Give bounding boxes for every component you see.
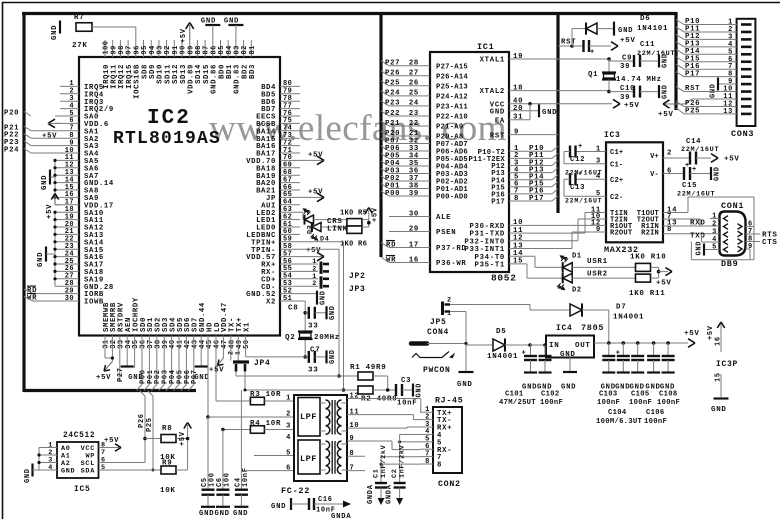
LED D4 LINK xyxy=(309,227,311,234)
svg-text:100nF: 100nF xyxy=(540,399,563,407)
svg-text:FC-22: FC-22 xyxy=(281,486,310,496)
svg-text:29: 29 xyxy=(409,225,419,233)
svg-text:1N4001: 1N4001 xyxy=(613,314,644,322)
svg-text:28: 28 xyxy=(409,60,419,68)
microcontroller IC1 8052 body xyxy=(430,52,509,272)
svg-text:16: 16 xyxy=(409,256,419,264)
DB9 loop wires T1OUT/T2OUT to pins 6/9 xyxy=(663,212,688,214)
svg-text:C105: C105 xyxy=(631,391,649,399)
svg-text:GND: GND xyxy=(61,467,75,475)
+5V at IC2 pin 47 VDD.47 xyxy=(222,336,224,359)
capacitor C1 1nF/2kV on CON2 pins 7/8 xyxy=(381,456,420,458)
svg-text:R3 10R: R3 10R xyxy=(250,391,281,399)
svg-text:RXD: RXD xyxy=(690,220,706,228)
ground at IC2 pin 44 GND.44 xyxy=(200,336,202,367)
R1 output joins R2 node xyxy=(373,375,388,377)
svg-text:LPF: LPF xyxy=(300,412,317,422)
svg-text:100M/6.3UT: 100M/6.3UT xyxy=(596,418,643,426)
svg-text:JP2: JP2 xyxy=(349,272,366,281)
svg-text:P37-RD: P37-RD xyxy=(436,245,466,253)
svg-text:R7: R7 xyxy=(74,14,84,22)
svg-text:+5V: +5V xyxy=(306,247,321,255)
CON3 pins 1-8 wires P10-P17 from bus xyxy=(676,20,684,25)
CON3 pin 13 P25 xyxy=(676,108,684,114)
svg-text:6: 6 xyxy=(667,167,672,175)
svg-text:C15: C15 xyxy=(682,182,697,190)
svg-text:P22: P22 xyxy=(385,110,400,118)
CON3 pin 11 +5V xyxy=(692,98,737,100)
svg-text:GND: GND xyxy=(199,510,214,518)
DB9 pin 5 ground xyxy=(703,244,705,256)
capacitor C2 1nF/2kV on CON2 pins 4/5 xyxy=(400,434,420,436)
svg-text:GND: GND xyxy=(490,109,505,117)
svg-text:27K: 27K xyxy=(72,42,88,50)
junction of R5/R6 to +5V xyxy=(362,219,369,221)
+5V arrow at IC2 pin 57 VDD.57 xyxy=(300,256,322,258)
svg-text:GND: GND xyxy=(696,241,704,256)
svg-text:+5V: +5V xyxy=(658,111,674,119)
svg-text:19: 19 xyxy=(513,53,523,61)
svg-text:1nF/2kV: 1nF/2kV xyxy=(380,444,388,478)
svg-text:+5V: +5V xyxy=(656,280,672,288)
svg-text:C1+: C1+ xyxy=(610,149,623,157)
svg-text:GND: GND xyxy=(711,406,727,414)
svg-text:2: 2 xyxy=(667,149,672,157)
svg-text:GND: GND xyxy=(41,175,49,190)
svg-text:8: 8 xyxy=(667,226,672,234)
svg-text:39: 39 xyxy=(620,94,630,102)
svg-text:X1: X1 xyxy=(243,322,251,332)
svg-text:GND: GND xyxy=(271,503,286,511)
svg-text:C11: C11 xyxy=(640,41,655,49)
svg-text:OUT: OUT xyxy=(575,342,591,350)
+5V arrow above IC2 pin 89 xyxy=(189,25,191,40)
svg-text:100nF: 100nF xyxy=(657,399,680,407)
svg-text:25: 25 xyxy=(409,90,419,98)
crystal Q2 20MHz xyxy=(298,330,313,332)
capacitor C13 22M/16UT xyxy=(576,178,607,180)
svg-text:SDA: SDA xyxy=(81,467,96,475)
svg-text:GNDA: GNDA xyxy=(386,484,394,504)
svg-text:8052: 8052 xyxy=(491,273,517,284)
svg-text:GND: GND xyxy=(233,510,248,518)
svg-text:10nF: 10nF xyxy=(397,400,417,408)
TX wire row to R1 xyxy=(235,372,237,377)
ground at R7 xyxy=(59,21,61,34)
bus line left vertical xyxy=(22,12,25,392)
svg-text:GND: GND xyxy=(457,381,473,389)
svg-text:4: 4 xyxy=(286,434,291,442)
diode D5 1N4001 xyxy=(466,344,493,346)
svg-text:30: 30 xyxy=(65,295,74,303)
svg-text:+5V: +5V xyxy=(179,431,187,446)
crystal Q1 14.74 MHz xyxy=(602,71,616,73)
svg-text:7805: 7805 xyxy=(581,323,604,333)
svg-text:JP4: JP4 xyxy=(254,359,271,368)
svg-text:GND: GND xyxy=(194,374,209,382)
svg-text:7: 7 xyxy=(350,464,355,472)
DB9 pin 4 stub xyxy=(702,241,720,243)
svg-text:P21-A9: P21-A9 xyxy=(436,124,463,132)
net USR1 wire to R10 xyxy=(572,266,635,268)
resistor R4 10R xyxy=(223,429,251,431)
svg-text:C101: C101 xyxy=(505,391,524,399)
crystal network: X2 wire from pin 51 xyxy=(300,300,305,302)
bus line right of IC1 vertical xyxy=(556,12,559,213)
svg-text:P25-A13: P25-A13 xyxy=(436,83,468,91)
svg-text:C9: C9 xyxy=(622,55,632,63)
svg-text:39: 39 xyxy=(409,190,419,198)
svg-text:RD: RD xyxy=(386,241,396,249)
svg-text:13: 13 xyxy=(723,108,733,116)
svg-text:P24: P24 xyxy=(4,147,19,155)
svg-text:14.74 MHz: 14.74 MHz xyxy=(616,76,662,84)
CON3 pin 12 P26 xyxy=(676,101,684,106)
IC1 port0 pins P07-P00 from bus xyxy=(381,139,389,144)
svg-text:P23-A11: P23-A11 xyxy=(436,104,468,112)
IC5 ground ties pins 1-4 xyxy=(38,448,40,471)
svg-text:11: 11 xyxy=(350,408,360,416)
svg-text:1: 1 xyxy=(286,394,291,402)
svg-text:39: 39 xyxy=(620,63,630,71)
svg-text:IC3: IC3 xyxy=(604,131,621,140)
svg-text:27: 27 xyxy=(409,70,419,78)
svg-text:C102: C102 xyxy=(541,391,559,399)
+5V node for R10/R11 xyxy=(651,266,659,268)
svg-text:1N4101: 1N4101 xyxy=(637,25,668,33)
svg-text:3: 3 xyxy=(596,158,601,166)
svg-text:8: 8 xyxy=(437,462,442,470)
net USR2 wire to R11 xyxy=(572,277,635,279)
capacitor C102 100nF xyxy=(543,343,547,347)
svg-text:GND: GND xyxy=(662,84,670,99)
svg-text:2: 2 xyxy=(286,411,291,419)
net RST from bus to reset circuit xyxy=(558,45,572,47)
svg-text:P24-A12: P24-A12 xyxy=(436,93,468,101)
svg-text:C2-: C2- xyxy=(610,194,623,202)
svg-text:IC1: IC1 xyxy=(477,42,494,52)
resistor R9 10K pull-up xyxy=(153,469,161,471)
ground symbol at IC2 pins 12-13 xyxy=(49,170,51,185)
svg-text:D7: D7 xyxy=(616,304,626,312)
net LINK wire to R6 xyxy=(321,226,347,228)
svg-text:P36-WR: P36-WR xyxy=(436,260,466,268)
svg-text:+: + xyxy=(692,166,697,174)
DB9 connector CON1 body xyxy=(720,212,746,256)
svg-text:GND: GND xyxy=(329,305,337,320)
svg-text:100: 100 xyxy=(223,472,231,487)
svg-text:CON4: CON4 xyxy=(427,328,449,337)
+5V arrow at IC2 pin 17 xyxy=(54,196,56,205)
ground tie bus for pins 11-16 xyxy=(54,160,56,197)
capacitor C101 47M/25UT xyxy=(530,345,532,356)
ethernet controller IC2 RTL8019AS body xyxy=(79,57,280,336)
svg-text:WR: WR xyxy=(386,256,396,264)
svg-text:GND: GND xyxy=(24,468,32,483)
svg-text:10: 10 xyxy=(350,422,360,430)
svg-text:V-: V- xyxy=(650,171,659,179)
IC2 pin 35 stub xyxy=(134,336,136,369)
svg-text:C108: C108 xyxy=(659,391,677,399)
svg-text:JP5: JP5 xyxy=(430,318,447,327)
svg-text:+5V: +5V xyxy=(42,133,57,141)
MAX232 power pins IC3P xyxy=(717,322,724,328)
svg-text:23: 23 xyxy=(409,110,419,118)
svg-text:20: 20 xyxy=(513,105,523,113)
svg-text:1K0 R5: 1K0 R5 xyxy=(340,210,367,218)
svg-text:33: 33 xyxy=(308,323,318,331)
svg-text:100nF: 100nF xyxy=(597,399,620,407)
svg-text:GND: GND xyxy=(329,349,337,364)
bus line middle vertical (left of IC1) xyxy=(379,12,382,257)
+5V arrow at IC2 pin 65 JP xyxy=(300,196,322,198)
svg-text:+5V: +5V xyxy=(620,37,636,45)
svg-text:81: 81 xyxy=(249,45,257,54)
svg-text:1K0 R11: 1K0 R11 xyxy=(629,290,665,298)
wire P34 to LED D1 xyxy=(509,255,535,257)
svg-text:GND: GND xyxy=(714,166,722,181)
svg-text:+: + xyxy=(590,49,595,57)
svg-text:IC4: IC4 xyxy=(556,324,573,333)
svg-text:+5V: +5V xyxy=(46,204,54,219)
IC4 ground xyxy=(569,358,571,372)
data bus P00-P07 from IC2 pins 36-43 to bus xyxy=(141,336,143,385)
resistor R6 1K0 xyxy=(347,226,362,233)
svg-text:CON2: CON2 xyxy=(438,480,461,489)
svg-text:2: 2 xyxy=(312,280,317,288)
ground at IC2 pin 34 AEN xyxy=(126,336,128,367)
net P27 at IC2 pin 33 RSTDRV xyxy=(119,336,121,383)
wire IC2 pin 45 down to ethernet filter xyxy=(207,336,209,490)
svg-text:GNDA: GNDA xyxy=(367,484,375,504)
svg-text:50: 50 xyxy=(243,340,251,349)
IC1 PSEN pin 29 xyxy=(389,231,430,233)
ground symbol at IC2 pins 23-24 xyxy=(45,247,47,262)
capacitor C9 39pF xyxy=(607,57,611,61)
svg-text:8: 8 xyxy=(350,450,355,458)
svg-text:P25: P25 xyxy=(385,80,400,88)
DB9 right pin contacts 6-9 xyxy=(738,224,743,230)
net CTS at DB9 pin 8 xyxy=(746,241,761,243)
output filter capacitors C103 C104 C105 C108 C106 xyxy=(607,341,611,345)
svg-text:+5V: +5V xyxy=(624,102,640,110)
svg-text:C13: C13 xyxy=(570,184,585,192)
svg-text:+5V: +5V xyxy=(308,151,323,159)
svg-text:6: 6 xyxy=(286,464,291,472)
svg-text:16: 16 xyxy=(715,336,723,346)
inner connection stubs of transformer xyxy=(320,402,326,404)
svg-text:100nF: 100nF xyxy=(629,399,652,407)
capacitor C6 100 xyxy=(222,430,224,490)
svg-text:5: 5 xyxy=(101,464,106,472)
svg-text:LPF: LPF xyxy=(300,454,317,464)
jumper JP2 on RX+/RX- pins 56/55 xyxy=(320,262,323,274)
resistor R7 27K xyxy=(76,23,92,32)
svg-text:+5V: +5V xyxy=(96,374,111,382)
wire JP5 pin2 to diode node xyxy=(450,304,530,306)
svg-text:C104: C104 xyxy=(608,409,627,417)
resistor R8 10K pull-up xyxy=(145,438,161,440)
svg-text:LINK: LINK xyxy=(327,226,348,234)
svg-text:17: 17 xyxy=(409,241,419,249)
capacitor C10 39pF xyxy=(607,90,611,94)
IC1 P37-RD pin 17 from bus xyxy=(381,243,389,248)
svg-text:1nF/2kV: 1nF/2kV xyxy=(398,444,406,478)
serial cross wires MAX232 to 8052 xyxy=(585,212,606,214)
diode D6 1N4101 xyxy=(571,29,573,46)
IC1 port1 pins P10-P17 to bus xyxy=(509,150,552,152)
svg-text:Q1: Q1 xyxy=(588,71,598,79)
svg-text:IC3P: IC3P xyxy=(716,360,738,369)
svg-text:R1 49R9: R1 49R9 xyxy=(350,364,386,372)
svg-text:8: 8 xyxy=(425,458,430,466)
svg-text:+5V: +5V xyxy=(684,330,700,338)
svg-text:RST: RST xyxy=(561,39,576,47)
svg-text:TXD: TXD xyxy=(690,232,706,240)
svg-text:EA: EA xyxy=(495,118,505,126)
eeprom IC5 24C512 body xyxy=(57,442,99,478)
svg-text:R2IN: R2IN xyxy=(641,230,659,238)
capacitor C11 22M/16UT electrolytic xyxy=(572,45,584,47)
svg-text:24: 24 xyxy=(409,100,419,108)
LED D3 CRS xyxy=(302,212,304,219)
resistor R2 49R9 xyxy=(358,386,373,394)
wire R1IN to DB9 pin2 RXD xyxy=(663,225,720,227)
svg-text:RST: RST xyxy=(685,85,700,93)
svg-text:5: 5 xyxy=(712,244,717,252)
svg-text:GND: GND xyxy=(37,252,45,267)
svg-text:22M/16UT: 22M/16UT xyxy=(681,146,719,154)
svg-text:P25: P25 xyxy=(685,108,700,116)
svg-text:JP3: JP3 xyxy=(349,285,366,294)
svg-text:C8: C8 xyxy=(288,305,298,313)
svg-text:IC2: IC2 xyxy=(147,107,191,130)
bus line right vertical (to CON3) xyxy=(674,12,677,110)
svg-text:RJ-45: RJ-45 xyxy=(435,397,463,406)
svg-text:PSEN: PSEN xyxy=(436,229,456,237)
IC1 P36-WR pin 16 from bus xyxy=(381,257,389,263)
svg-text:GND: GND xyxy=(542,109,557,117)
svg-text:C106: C106 xyxy=(646,409,664,417)
svg-text:1: 1 xyxy=(596,145,601,153)
svg-text:R4 10R: R4 10R xyxy=(250,420,281,428)
svg-text:5: 5 xyxy=(286,449,291,457)
wire X1 pin 50 to crystal xyxy=(245,336,247,357)
svg-text:GND: GND xyxy=(662,53,670,68)
svg-text:24C512: 24C512 xyxy=(63,432,95,440)
svg-text:18: 18 xyxy=(513,84,523,92)
svg-text:C1-: C1- xyxy=(610,161,623,169)
svg-text:D1: D1 xyxy=(572,253,582,261)
LED D2 xyxy=(563,273,573,283)
svg-text:47M/25UT: 47M/25UT xyxy=(499,399,536,407)
FC-22 pin 7 stub xyxy=(347,470,365,472)
svg-text:R9: R9 xyxy=(162,460,172,468)
+5V node for R8/R9 xyxy=(176,438,188,440)
DB9 pin 1 stub xyxy=(710,218,720,220)
low pass filter block 1 xyxy=(298,398,320,437)
svg-text:DB9: DB9 xyxy=(721,259,738,269)
diode D7 1N4001 bypass xyxy=(530,309,570,311)
wire FC-22 pin 9 to CON2 pin 6 xyxy=(347,440,392,442)
svg-text:R2OUT: R2OUT xyxy=(610,230,633,238)
svg-text:P20: P20 xyxy=(4,110,19,118)
svg-text:C7: C7 xyxy=(310,347,320,355)
+5V arrow into IC2 pin 6 xyxy=(48,119,55,128)
svg-text:+5V: +5V xyxy=(308,188,323,196)
svg-text:R2 49R9: R2 49R9 xyxy=(361,396,397,404)
svg-text:R8: R8 xyxy=(162,425,172,433)
svg-text:C14: C14 xyxy=(686,138,701,146)
svg-text:D6: D6 xyxy=(640,15,650,23)
wire FC-22 pin 11 to CON2 pin 2 xyxy=(347,414,414,416)
TX wire row to R2 xyxy=(244,372,246,391)
svg-text:P17: P17 xyxy=(491,199,505,207)
svg-text:P26: P26 xyxy=(385,70,400,78)
svg-text:GNDA: GNDA xyxy=(331,513,351,519)
capacitor C4 10nF xyxy=(240,390,242,490)
svg-text:C12: C12 xyxy=(570,156,585,164)
resistor R3 10R xyxy=(216,400,250,402)
svg-text:9: 9 xyxy=(350,435,355,443)
svg-text:GND: GND xyxy=(416,383,424,398)
svg-text:P22-A10: P22-A10 xyxy=(436,114,468,122)
wire FC-22 pin 12 to CON2 pin 1 xyxy=(347,398,421,400)
svg-text:IC5: IC5 xyxy=(74,485,91,494)
svg-text:9: 9 xyxy=(514,128,519,136)
svg-text:P21: P21 xyxy=(385,120,400,128)
IC5 SCL pin 6 wire to P26 xyxy=(99,462,146,464)
svg-text:2: 2 xyxy=(712,221,717,229)
DB9 left pin contacts 1-5 xyxy=(724,216,729,222)
RJ-45 connector CON2 body xyxy=(433,407,462,473)
svg-text:P26-A14: P26-A14 xyxy=(436,73,468,81)
svg-text:+: + xyxy=(616,350,621,358)
resistor R11 1K0 xyxy=(636,274,651,282)
net CRS wire to R5 xyxy=(314,219,347,221)
svg-text:26: 26 xyxy=(409,80,419,88)
ground tie bus for pins 18-28 xyxy=(54,212,56,286)
IC1 port2 pins P27-P20 from bus xyxy=(381,61,389,66)
IC5 SDA pin 5 wire to P25 xyxy=(99,469,154,471)
svg-text:CON3: CON3 xyxy=(731,129,754,139)
CON3 pin 10 RST xyxy=(676,87,684,92)
wire R2IN to DB9 pin3 TXD xyxy=(663,233,720,235)
svg-text:X2: X2 xyxy=(266,299,276,307)
svg-text:9: 9 xyxy=(596,226,601,234)
svg-text:D2: D2 xyxy=(572,287,582,295)
svg-text:+: + xyxy=(578,171,583,179)
svg-text:USR2: USR2 xyxy=(587,271,608,279)
bus line bottom horizontal xyxy=(24,389,196,392)
svg-text:+5V: +5V xyxy=(372,207,380,222)
net P25 drop from bus xyxy=(148,391,154,397)
svg-text:P17: P17 xyxy=(685,70,700,78)
svg-text:22M/16UT: 22M/16UT xyxy=(565,198,602,205)
svg-text:+: + xyxy=(522,350,527,358)
capacitor C8 33pF xyxy=(303,311,307,315)
IC1 ALE pin 30 xyxy=(389,216,430,218)
svg-text:+: + xyxy=(578,143,583,151)
svg-text:GND: GND xyxy=(560,351,576,359)
svg-text:P00: P00 xyxy=(385,190,400,198)
jumper JP4 on TX pins 48/49 xyxy=(230,336,232,361)
svg-text:3: 3 xyxy=(286,423,291,431)
svg-text:P35-T1: P35-T1 xyxy=(475,262,505,270)
capacitor C15 22M/16UT on V- xyxy=(663,173,684,175)
rs232 driver IC3 MAX232 body xyxy=(606,142,663,242)
wire JP5 pin1 to CON4 xyxy=(450,311,466,313)
